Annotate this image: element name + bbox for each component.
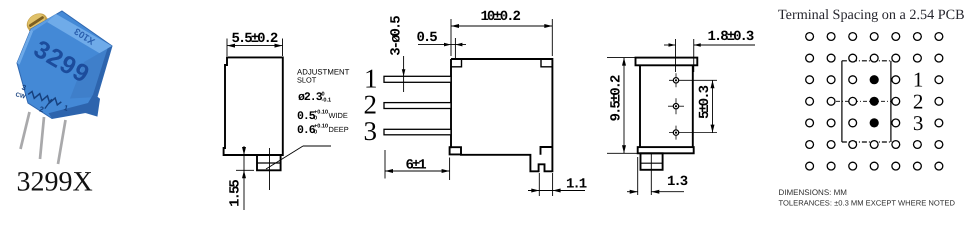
body [640, 65, 693, 147]
svg-text:0.6: 0.6 [297, 124, 316, 137]
tab above right standoff [541, 147, 553, 155]
view: front (pins 1-3) [364, 9, 587, 196]
pin 1 [384, 76, 451, 82]
svg-text:DIMENSIONS: MM: DIMENSIONS: MM [779, 188, 848, 197]
svg-text:0.5: 0.5 [297, 110, 316, 123]
svg-text:5.5±0.2: 5.5±0.2 [232, 31, 278, 47]
svg-text:1.3: 1.3 [667, 174, 688, 190]
svg-text:5±0.3: 5±0.3 [697, 85, 713, 119]
callout: adjustment slot [297, 68, 350, 138]
svg-text:0: 0 [314, 130, 317, 136]
pin 3 [384, 129, 451, 135]
svg-text:1.55: 1.55 [228, 180, 244, 207]
dim 5±0.3 [712, 80, 714, 132]
svg-text:3299X: 3299X [17, 167, 93, 198]
corner tab right [541, 59, 552, 67]
svg-text:10±0.2: 10±0.2 [481, 9, 521, 25]
svg-text:TOLERANCES: ±0.3 MM EXCEPT WHE: TOLERANCES: ±0.3 MM EXCEPT WHERE NOTED [779, 199, 956, 208]
leg 1 [21, 112, 30, 149]
slot centerline in standoff [269, 148, 271, 190]
svg-text:SLOT: SLOT [297, 76, 317, 85]
cap [636, 58, 698, 66]
view: side (5.5 wide) [224, 31, 350, 210]
right edge dark [93, 46, 112, 97]
centerline [836, 100, 899, 102]
svg-text:WIDE: WIDE [329, 111, 348, 120]
side face (darker) [70, 46, 112, 99]
terminal pins (filled) [870, 75, 879, 84]
PCB terminal spacing grid [778, 7, 965, 207]
body silhouette [17, 11, 112, 119]
svg-text:0: 0 [314, 116, 317, 122]
screw (brass) [23, 10, 52, 38]
leader to adjustment slot [266, 146, 331, 169]
dim 1.55 [236, 146, 254, 210]
base plate [638, 147, 694, 153]
body outline side view [224, 57, 283, 155]
dim line 10 [451, 19, 552, 56]
svg-text:9.5±0.2: 9.5±0.2 [609, 75, 625, 121]
pin 2 [384, 103, 451, 109]
svg-text:Terminal Spacing on a 2.54 PCB: Terminal Spacing on a 2.54 PCB [778, 7, 965, 23]
standoff with slot [257, 155, 281, 170]
leg 2 [40, 117, 44, 159]
svg-text:1.8±0.3: 1.8±0.3 [708, 29, 754, 45]
photo: blue trimmer potentiometer [12, 10, 112, 164]
svg-text:3-ø0.5: 3-ø0.5 [389, 16, 405, 56]
bottom-left tab [450, 147, 461, 154]
footprint outline [842, 61, 891, 142]
top face band [47, 14, 112, 55]
leg 3 [58, 120, 66, 164]
svg-text:3: 3 [913, 111, 924, 135]
pin hole bottom [669, 126, 717, 140]
svg-text:DEEP: DEEP [329, 125, 349, 134]
hole grid [806, 33, 814, 41]
body outline front view [450, 59, 553, 171]
svg-text:-0.1: -0.1 [322, 98, 332, 104]
left edge highlight [17, 29, 33, 65]
svg-text:0.5: 0.5 [417, 30, 438, 46]
corner tab left [451, 59, 462, 67]
schematic marking: zigzag [12, 82, 71, 121]
svg-text:1: 1 [913, 68, 924, 92]
view: right side [607, 29, 755, 195]
dim line 5.5 [227, 39, 283, 57]
bottom dark shade [49, 95, 100, 119]
pin hole middle [668, 98, 684, 114]
screw-corner face [31, 14, 56, 31]
dim 9.5±0.2 [607, 58, 638, 154]
pin hole top [669, 73, 717, 87]
svg-text:2: 2 [913, 89, 924, 113]
standoff [641, 153, 663, 170]
svg-text:3: 3 [364, 116, 378, 146]
svg-text:ø2.3: ø2.3 [298, 91, 323, 104]
